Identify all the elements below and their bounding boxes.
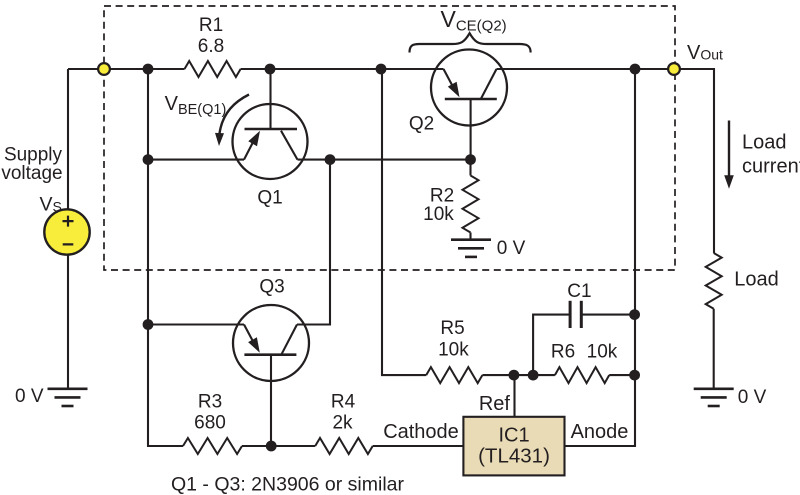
svg-text:VCE(Q2): VCE(Q2) (441, 6, 507, 35)
svg-text:voltage: voltage (1, 163, 62, 184)
svg-text:VBE(Q1): VBE(Q1) (165, 93, 227, 118)
svg-text:Load: Load (742, 131, 787, 153)
svg-text:R5: R5 (440, 318, 464, 339)
svg-text:Cathode: Cathode (383, 421, 459, 443)
svg-text:VOut: VOut (687, 42, 723, 64)
svg-text:6.8: 6.8 (198, 36, 224, 57)
svg-text:VS: VS (40, 194, 62, 216)
svg-text:(TL431): (TL431) (478, 445, 550, 468)
svg-text:IC1: IC1 (498, 424, 529, 446)
svg-text:Q2: Q2 (409, 114, 434, 135)
svg-text:10k: 10k (587, 342, 618, 363)
svg-text:Q3: Q3 (259, 277, 284, 298)
svg-text:Q1 - Q3: 2N3906 or similar: Q1 - Q3: 2N3906 or similar (171, 473, 405, 495)
svg-text:0 V: 0 V (738, 387, 767, 408)
svg-text:R3: R3 (198, 392, 222, 413)
svg-text:C1: C1 (567, 281, 591, 302)
svg-text:Anode: Anode (571, 421, 629, 443)
svg-text:R1: R1 (199, 15, 223, 36)
svg-text:0 V: 0 V (15, 386, 44, 407)
svg-text:R4: R4 (331, 392, 356, 413)
svg-text:Q1: Q1 (257, 188, 282, 209)
svg-text:2k: 2k (332, 412, 353, 433)
svg-text:Load: Load (734, 268, 779, 290)
svg-text:current: current (742, 155, 800, 177)
svg-text:10k: 10k (438, 340, 469, 361)
svg-text:0 V: 0 V (497, 238, 526, 259)
svg-text:10k: 10k (423, 204, 454, 225)
svg-text:R6: R6 (551, 342, 575, 363)
svg-text:680: 680 (194, 412, 226, 433)
svg-text:Ref: Ref (479, 393, 511, 415)
